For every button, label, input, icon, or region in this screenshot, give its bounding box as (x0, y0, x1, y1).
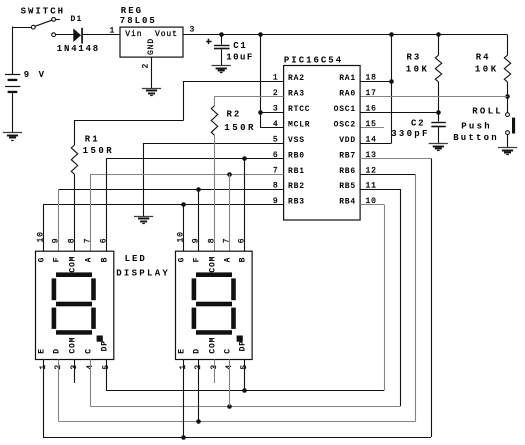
wire switch to diode (56, 34, 74, 36)
svg-text:Vin: Vin (125, 30, 142, 39)
wire rail to R3 (438, 35, 440, 56)
svg-text:COM: COM (69, 337, 78, 354)
wire C bus (90, 406, 400, 408)
svg-text:VDD: VDD (339, 136, 356, 145)
wire R4 to button (507, 82, 509, 113)
display right box (176, 251, 253, 359)
svg-text:10uF: 10uF (226, 52, 254, 62)
ground VSS (134, 217, 153, 224)
display left segment G (56, 302, 92, 307)
wire DP bus (106, 390, 384, 392)
wire VDD (360, 143, 392, 145)
svg-text:R4: R4 (476, 53, 491, 63)
label C1 plus (206, 39, 211, 44)
svg-text:Button: Button (453, 133, 499, 143)
wire RB7 pin13 (360, 158, 431, 160)
wire diode to regulator (83, 34, 120, 36)
wire R1 to left COM (74, 174, 76, 251)
wire RA1 (360, 81, 392, 83)
wire MCLR (260, 127, 284, 129)
svg-text:DP: DP (239, 340, 248, 351)
svg-text:GND: GND (147, 38, 156, 55)
resistor R3 (435, 55, 441, 82)
wire E bus (43, 437, 431, 439)
wire rail to C1 (221, 35, 223, 45)
display left segment C (91, 308, 96, 329)
wire RB0 drop right B (244, 158, 246, 251)
wire RB1 drop right A (229, 174, 231, 251)
wire RTCC (260, 112, 284, 114)
svg-text:E: E (38, 348, 47, 354)
svg-text:R1: R1 (85, 135, 100, 145)
svg-text:RA2: RA2 (288, 74, 305, 83)
capacitor C2 (431, 123, 446, 127)
wire rail down to MCLR (260, 35, 262, 128)
wire RB5 pin11 (360, 189, 400, 191)
display right segment C (231, 308, 236, 329)
svg-text:G: G (38, 257, 47, 263)
svg-text:8: 8 (207, 238, 216, 244)
svg-text:14: 14 (366, 136, 377, 145)
svg-text:LED: LED (125, 254, 147, 264)
svg-text:RB3: RB3 (288, 198, 305, 207)
svg-text:RA3: RA3 (288, 90, 305, 99)
wire right E down (183, 360, 185, 438)
wire rail down to VDD (391, 35, 393, 143)
node right DP junction (242, 388, 247, 393)
wire battery top vertical (12, 27, 14, 75)
svg-text:REG: REG (121, 6, 143, 16)
switch SW1 (31, 18, 59, 37)
svg-text:RB7: RB7 (339, 152, 356, 161)
svg-text:C1: C1 (233, 41, 247, 51)
wire right COM stub (214, 360, 216, 384)
svg-text:C2: C2 (411, 118, 425, 128)
diode D1 (73, 28, 83, 44)
display right segment A (196, 272, 232, 277)
capacitor C1 (214, 46, 230, 49)
display left segment B (91, 278, 96, 300)
svg-text:PIC16C54: PIC16C54 (284, 56, 343, 66)
battery BT1 9V (5, 75, 20, 94)
svg-text:D: D (193, 348, 202, 354)
wire RB2 drop right F (198, 189, 200, 251)
display right segment D (196, 330, 232, 335)
svg-text:B: B (101, 257, 110, 263)
svg-text:RB4: RB4 (339, 198, 356, 207)
svg-text:9 V: 9 V (24, 70, 46, 80)
svg-text:COM: COM (69, 256, 78, 273)
wire OSC1 node to C2 (438, 112, 440, 122)
wire +5V rail (183, 34, 508, 36)
wire right DP down (244, 360, 246, 391)
ground battery (3, 133, 22, 141)
wire RA2 pin1 (184, 81, 284, 83)
node rail-VDD (389, 32, 394, 37)
ground C2 (429, 144, 448, 151)
node right C junction (227, 404, 232, 409)
svg-text:Push: Push (461, 122, 492, 132)
wire RB6 pin12 (360, 174, 415, 176)
node right D junction (196, 419, 201, 424)
svg-text:4: 4 (273, 120, 279, 129)
wire OSC1 line (360, 112, 438, 114)
wire VSS pin5 (143, 143, 283, 145)
svg-text:G: G (178, 257, 187, 263)
wire battery negative (12, 93, 14, 133)
wire RB1 pin7 (90, 174, 283, 176)
node rail-C1 (219, 32, 224, 37)
svg-text:MCLR: MCLR (288, 121, 310, 130)
wire left COM stub (74, 360, 76, 384)
display right segment E (192, 308, 197, 329)
wire RB4 vertical (384, 205, 386, 391)
node RA0 junction (505, 94, 510, 99)
node RTCC junction (258, 110, 263, 115)
wire RB7 vertical (431, 158, 433, 437)
wire RA3 pin2 to R2 (214, 96, 283, 98)
wire RA2 to R1 (74, 120, 183, 122)
wire right C down (229, 360, 231, 407)
wire R3 to OSC1 node (438, 82, 440, 112)
wire D bus (59, 421, 416, 423)
wire left DP down (106, 360, 108, 391)
wire left E down (43, 360, 45, 438)
display left segment F (52, 278, 57, 300)
svg-text:8: 8 (67, 238, 76, 244)
node RB2 drop (196, 187, 201, 192)
svg-text:RB0: RB0 (288, 152, 305, 161)
display left box (36, 251, 114, 359)
node right E junction (181, 435, 186, 440)
svg-text:C: C (224, 348, 233, 354)
svg-text:E: E (178, 348, 187, 354)
wire rail to R4 (507, 35, 509, 56)
wire RA2 jog vertical (183, 81, 185, 120)
svg-text:6: 6 (237, 238, 246, 244)
resistor R1 (71, 145, 77, 174)
ground button (498, 148, 517, 155)
svg-text:7: 7 (83, 238, 92, 244)
wire RB2 pin8 (59, 189, 284, 191)
ground regulator (142, 89, 161, 96)
wire left C down (90, 360, 92, 407)
svg-text:2: 2 (142, 63, 151, 69)
svg-text:OSC2: OSC2 (334, 121, 356, 130)
display right segment B (231, 278, 236, 300)
wire RB3 drop right G (183, 205, 185, 252)
node rail-R3 (436, 32, 441, 37)
node OSC1 junction (436, 110, 441, 115)
svg-text:C: C (85, 348, 94, 354)
svg-text:RTCC: RTCC (288, 105, 310, 114)
ground C1 (212, 66, 231, 73)
node RB3 drop (181, 202, 186, 207)
display left segment A (56, 272, 92, 277)
svg-text:D1: D1 (71, 15, 83, 24)
svg-text:3: 3 (190, 26, 196, 35)
IC U1 PIC16C54 box (284, 66, 361, 221)
svg-text:RB6: RB6 (339, 167, 356, 176)
wire C1 to ground (221, 49, 223, 65)
svg-text:D: D (53, 348, 62, 354)
wire RB4 pin10 (360, 204, 384, 206)
wire C2 to ground (438, 127, 440, 143)
svg-text:B: B (239, 257, 248, 263)
svg-text:F: F (53, 257, 62, 263)
wire left D down (58, 360, 60, 422)
wire RB6 vertical (415, 174, 417, 422)
svg-text:RB1: RB1 (288, 167, 305, 176)
svg-text:DP: DP (101, 340, 110, 351)
wire RB2 drop left F (58, 189, 60, 251)
svg-text:330pF: 330pF (391, 129, 430, 139)
display right segment G (196, 302, 232, 307)
display left segment D (56, 330, 92, 335)
resistor R2 (211, 106, 217, 136)
svg-text:10: 10 (36, 231, 45, 242)
svg-text:R2: R2 (227, 109, 242, 119)
regulator pin 2 stub (151, 57, 153, 88)
svg-text:9: 9 (191, 238, 200, 244)
wire RB0 drop left B (106, 158, 108, 251)
svg-text:RA0: RA0 (339, 90, 356, 99)
svg-text:Vout: Vout (155, 30, 178, 39)
svg-text:17: 17 (366, 89, 377, 98)
svg-text:10: 10 (176, 231, 185, 242)
wire RB3 drop left G (43, 205, 45, 252)
svg-text:1: 1 (110, 27, 116, 36)
svg-text:18: 18 (366, 74, 377, 83)
svg-text:16: 16 (366, 105, 377, 114)
regulator U2 78L05 box (120, 27, 183, 57)
resistor R4 (504, 55, 510, 82)
display right segment F (192, 278, 197, 300)
svg-text:9: 9 (51, 238, 60, 244)
svg-text:78L05: 78L05 (120, 16, 157, 26)
svg-text:10K: 10K (475, 64, 499, 74)
svg-text:10K: 10K (406, 64, 430, 74)
svg-text:150R: 150R (83, 146, 115, 156)
wire battery positive to switch (13, 27, 32, 29)
svg-text:A: A (85, 257, 94, 263)
wire RB3 pin9 (43, 204, 284, 206)
svg-text:DISPLAY: DISPLAY (116, 268, 170, 278)
wire right D down (198, 360, 200, 422)
svg-text:A: A (224, 257, 233, 263)
node rail-RTCC (258, 32, 263, 37)
wire R1 top (74, 120, 76, 145)
node RB1 drop (227, 172, 232, 177)
svg-text:150R: 150R (224, 123, 256, 133)
svg-text:SWITCH: SWITCH (21, 6, 65, 16)
wire button to ground (507, 135, 509, 148)
pushbutton SW2 (506, 113, 515, 135)
wire R2 top (214, 97, 216, 106)
node RA1 junction (389, 79, 394, 84)
display left segment DP (97, 336, 103, 342)
svg-text:OSC1: OSC1 (334, 105, 356, 114)
wire R2 to right COM (214, 135, 216, 251)
wire RA0 line (360, 96, 507, 98)
node RB0 drop (242, 156, 247, 161)
svg-text:VSS: VSS (288, 136, 305, 145)
svg-text:R3: R3 (407, 53, 422, 63)
svg-text:3: 3 (273, 105, 279, 114)
svg-text:RB5: RB5 (339, 182, 356, 191)
svg-text:ROLL: ROLL (472, 107, 503, 117)
wire OSC2 stub (360, 127, 384, 129)
svg-text:6: 6 (99, 238, 108, 244)
svg-text:COM: COM (209, 256, 218, 273)
svg-text:RB2: RB2 (288, 182, 305, 191)
wire RB1 drop left A (90, 174, 92, 251)
svg-text:15: 15 (366, 120, 377, 129)
wire VSS to ground (143, 143, 145, 216)
display left segment E (52, 308, 57, 329)
display right segment DP (237, 336, 243, 342)
svg-text:F: F (193, 257, 202, 263)
svg-text:RA1: RA1 (339, 74, 356, 83)
svg-text:1N4148: 1N4148 (57, 44, 100, 54)
svg-text:7: 7 (222, 238, 231, 244)
svg-text:COM: COM (209, 337, 218, 354)
wire RB5 vertical (400, 189, 402, 406)
wire RB0 pin6 (106, 158, 283, 160)
